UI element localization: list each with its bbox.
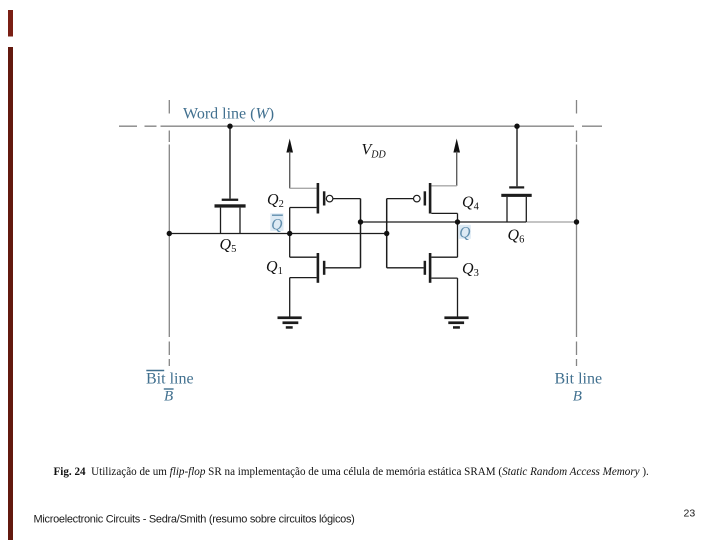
VDD arrow right arrowhead <box>453 139 460 153</box>
ground right bar1 <box>444 316 468 319</box>
transistor Q3 source stub <box>431 277 457 279</box>
word line <box>161 125 575 127</box>
node dot left bit line <box>167 231 172 236</box>
transistor Q3 channel bar <box>429 253 432 283</box>
transistor Q6 gate tap wire <box>516 126 518 186</box>
right bit line solid <box>576 145 578 338</box>
node dot Qbar to right gates <box>384 231 389 236</box>
red slide accent bar main segment <box>8 47 13 540</box>
right inverter ground feed wire <box>457 278 459 317</box>
svg-text:Q: Q <box>271 217 282 234</box>
right inverter gate link horizontal top <box>387 198 414 200</box>
transistor Q1 gate bar <box>323 261 326 275</box>
VDD arrow right shaft <box>456 152 458 186</box>
transistor Q4 drain stub <box>431 212 457 214</box>
label Q highlight <box>458 225 471 239</box>
transistor Q4 bubble <box>414 195 421 202</box>
node dot word line Q6 tap <box>514 124 519 129</box>
transistor Q3 gate bar <box>424 261 427 275</box>
left inverter gate link vertical <box>360 199 362 268</box>
transistor Q5 gate bar <box>222 199 239 201</box>
node dot Q to left gates <box>358 219 363 224</box>
word line left dashes <box>119 125 157 127</box>
svg-text:B: B <box>573 388 582 404</box>
transistor Q5 drain leg <box>239 208 241 234</box>
node dot left inverter output <box>287 231 292 236</box>
node Qbar wire <box>169 233 386 235</box>
right inverter output vertical wire lower <box>457 222 459 257</box>
left inverter ground feed wire <box>289 278 291 317</box>
transistor Q3 drain stub <box>431 256 457 258</box>
node Q wire <box>361 221 527 223</box>
right bit line dashed top <box>576 100 578 142</box>
transistor Q4 gate bar <box>424 191 427 205</box>
svg-text:Fig. 24 Utilização de um flip: Fig. 24 Utilização de um flip-flop SR na… <box>54 466 650 478</box>
node dot right inverter output <box>455 219 460 224</box>
transistor Q4 channel bar <box>429 183 432 214</box>
node Q wire grey segment to right bit line <box>526 221 577 223</box>
transistor Q2 channel bar <box>317 183 320 214</box>
transistor Q5 channel bar <box>215 204 246 207</box>
svg-text:Bit line: Bit line <box>555 371 603 388</box>
transistor Q6 source leg <box>506 197 508 222</box>
transistor Q1 drain stub <box>290 256 317 258</box>
ground right bar3 <box>453 326 460 329</box>
transistor Q2 drain stub <box>290 207 317 209</box>
transistor Q2 gate bar <box>323 191 326 205</box>
node dot right bit line <box>574 219 579 224</box>
left inverter output vertical wire <box>289 208 291 258</box>
transistor Q1 channel bar <box>317 253 320 283</box>
left inverter gate link horizontal top <box>333 198 361 200</box>
word line right dash <box>582 125 602 127</box>
transistor Q6 drain leg <box>525 197 527 222</box>
left bit line solid <box>168 145 170 338</box>
node dot word line Q5 tap <box>227 124 232 129</box>
label Qbar overbar <box>272 214 283 216</box>
transistor Q6 channel bar <box>501 194 531 197</box>
VDD arrow left arrowhead <box>286 139 293 153</box>
Q4 source stub wire <box>431 185 456 187</box>
transistor Q5 gate tap wire <box>229 126 231 198</box>
label Qbar highlight <box>270 213 283 231</box>
red slide accent bar top segment <box>8 10 13 37</box>
ground left bar3 <box>286 326 293 329</box>
transistor Q5 source leg <box>220 208 222 234</box>
left inverter gate link horizontal bottom <box>325 267 360 269</box>
svg-text:Word line (W): Word line (W) <box>183 106 274 123</box>
transistor Q6 gate bar <box>509 186 524 188</box>
transistor Q2 bubble <box>326 195 333 202</box>
right inverter output vertical wire upper <box>457 213 459 222</box>
ground left bar1 <box>278 316 302 319</box>
svg-text:Bit line: Bit line <box>146 371 194 388</box>
svg-text:Q: Q <box>459 224 470 241</box>
right inverter gate link horizontal bottom <box>387 267 424 269</box>
right inverter gate link vertical <box>386 199 388 268</box>
svg-text:Microelectronic Circuits - Sed: Microelectronic Circuits - Sedra/Smith (… <box>34 514 355 526</box>
svg-text:23: 23 <box>684 508 696 520</box>
Q2 source stub wire <box>290 187 317 189</box>
left bit line dashed bottom <box>168 342 170 367</box>
label B-bar overbar <box>164 388 174 390</box>
svg-text:B: B <box>164 388 173 404</box>
right bit line dashed bottom <box>576 342 578 367</box>
VDD arrow left shaft <box>289 152 291 189</box>
left bit line dashed top <box>168 100 170 142</box>
ground left bar2 <box>283 321 299 324</box>
label Bit-bar line overbar <box>146 370 164 372</box>
ground right bar2 <box>448 321 464 324</box>
transistor Q1 source stub <box>290 277 317 279</box>
